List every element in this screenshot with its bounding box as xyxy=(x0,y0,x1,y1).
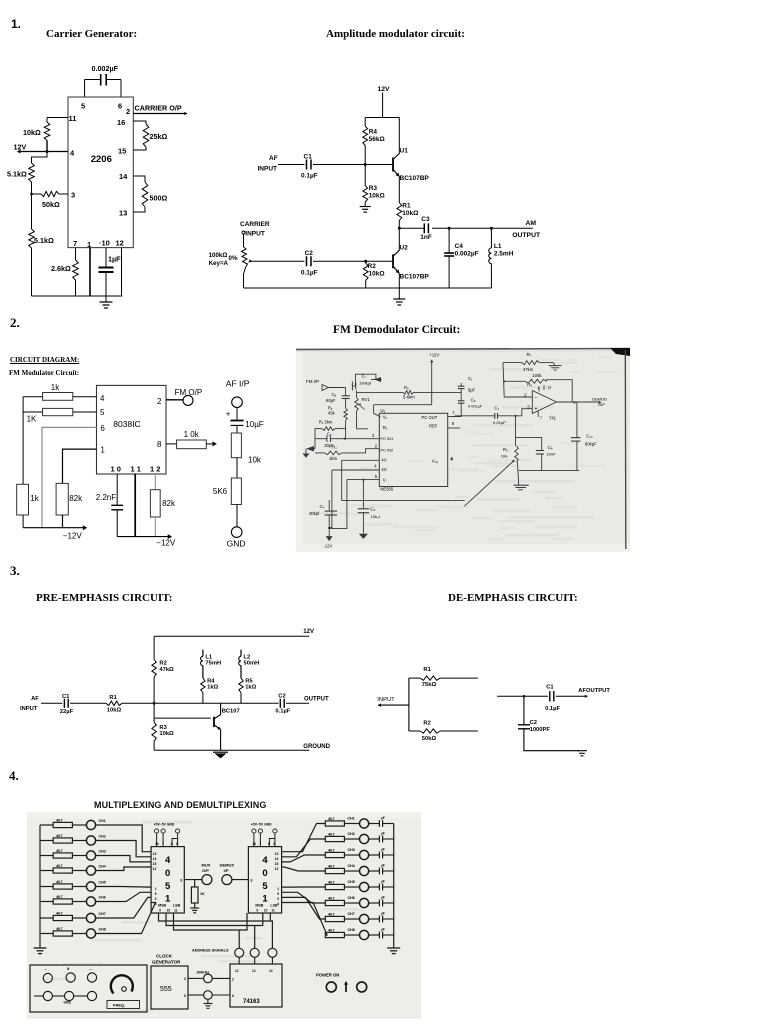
svg-text:L1: L1 xyxy=(494,243,502,250)
wire C1 to R1 xyxy=(70,702,106,704)
svg-text:22µF: 22µF xyxy=(60,709,74,715)
svg-text:C2: C2 xyxy=(530,720,537,726)
svg-text:0.1µF: 0.1µF xyxy=(301,173,318,180)
svg-text:50kΩ: 50kΩ xyxy=(422,736,437,742)
svg-text:CH7: CH7 xyxy=(348,912,355,916)
svg-text:O/P: O/P xyxy=(202,868,209,873)
svg-text:80pF: 80pF xyxy=(326,398,336,403)
svg-text:4K7: 4K7 xyxy=(56,864,63,868)
svg-text:BC107BP: BC107BP xyxy=(400,175,430,182)
svg-text:4K7: 4K7 xyxy=(56,818,63,822)
wire input vertical xyxy=(408,678,410,731)
svg-text:PC IN2: PC IN2 xyxy=(380,448,394,453)
svg-text:4K7: 4K7 xyxy=(328,880,335,884)
section number 3 xyxy=(10,563,20,579)
svg-text:INPUT: INPUT xyxy=(258,166,278,173)
scan dark corner mark xyxy=(610,348,630,356)
svg-text:7: 7 xyxy=(162,842,164,846)
svg-text:−12V: −12V xyxy=(63,532,83,541)
channel CH1 input row xyxy=(40,824,53,826)
wire emitter U2 down xyxy=(398,273,400,299)
svg-text:3: 3 xyxy=(184,977,186,981)
svg-text:12: 12 xyxy=(275,867,279,871)
svg-text:4K7: 4K7 xyxy=(328,912,335,916)
power switch arrow xyxy=(345,983,347,992)
svg-text:0.1µF: 0.1µF xyxy=(301,270,318,277)
svg-text:CH8: CH8 xyxy=(99,928,106,932)
ground C4 / -12V xyxy=(326,536,333,541)
wire DEMUX to right chip xyxy=(232,879,249,881)
svg-text:NE565: NE565 xyxy=(380,487,393,492)
svg-text:4K7: 4K7 xyxy=(56,927,63,931)
address terminal 1 xyxy=(235,948,244,957)
svg-text:1µF: 1µF xyxy=(108,255,121,264)
ground left xyxy=(310,448,315,450)
node junction 12V/10k xyxy=(46,150,49,153)
terminal DEMUX I/P xyxy=(222,875,232,885)
svg-text:CARRIER: CARRIER xyxy=(240,221,270,228)
wire left rail top xyxy=(153,636,155,659)
svg-text:4K7: 4K7 xyxy=(328,832,335,836)
svg-text:6: 6 xyxy=(171,842,173,846)
channel CH7 input row xyxy=(40,917,53,919)
svg-text:1nF: 1nF xyxy=(420,234,432,241)
svg-text:15: 15 xyxy=(275,862,279,866)
svg-text:µF: µF xyxy=(381,848,385,852)
svg-text:CH6: CH6 xyxy=(99,896,106,900)
ground xyxy=(100,301,113,303)
wire R2 branch xyxy=(409,730,420,732)
SVG: pre-emphasis schematic xyxy=(0,620,340,765)
svg-text:OUTPUT: OUTPUT xyxy=(304,696,329,702)
svg-text:1k: 1k xyxy=(30,494,39,503)
terminal FM O/P xyxy=(183,395,193,405)
wire AF input xyxy=(278,164,305,166)
svg-text:12: 12 xyxy=(153,867,157,871)
knob circles top xyxy=(43,973,52,982)
wire C2 branch xyxy=(523,696,525,725)
svg-text:AM: AM xyxy=(526,220,537,227)
svg-text:4K7: 4K7 xyxy=(56,895,63,899)
svg-text:10µF: 10µF xyxy=(245,420,264,429)
svg-text:C2: C2 xyxy=(305,250,314,257)
svg-text:R₊: R₊ xyxy=(332,445,337,450)
wire Vco up right xyxy=(451,457,453,460)
channel CH7 output row xyxy=(282,897,326,919)
svg-text:CH6: CH6 xyxy=(348,896,355,900)
wire base tap xyxy=(153,703,155,718)
IC 4051 box xyxy=(151,847,184,913)
scan right border xyxy=(624,350,627,549)
heading: Carrier Generator xyxy=(46,28,137,40)
svg-text:10kₚf: 10kₚf xyxy=(371,514,381,519)
svg-text:13: 13 xyxy=(275,852,279,856)
svg-text:9: 9 xyxy=(159,909,161,913)
svg-text:10nF: 10nF xyxy=(546,451,556,456)
svg-text:555: 555 xyxy=(160,986,172,993)
wire R1 branch xyxy=(409,677,420,679)
channel CH5 input row xyxy=(40,886,53,888)
svg-text:10kΩ: 10kΩ xyxy=(369,271,385,278)
wire CV row xyxy=(342,459,380,461)
node main xyxy=(153,702,156,705)
svg-text:FREQ.: FREQ. xyxy=(113,1003,125,1008)
svg-text:7: 7 xyxy=(540,416,542,420)
svg-text:16: 16 xyxy=(252,842,256,846)
svg-text:5-6km: 5-6km xyxy=(403,395,415,400)
capacitor C4 0.002uF branch xyxy=(448,227,451,230)
wire input stub xyxy=(378,704,409,706)
terminal lower xyxy=(204,991,213,1000)
output wire xyxy=(557,401,601,403)
wire pin10 xyxy=(105,248,107,267)
svg-text:⋯: ⋯ xyxy=(44,968,47,972)
channel CH8 input row xyxy=(40,933,53,935)
ground right rail xyxy=(387,947,400,949)
noise xyxy=(121,921,151,924)
svg-text:MUX: MUX xyxy=(202,863,211,868)
wire pin6 gray xyxy=(42,427,97,527)
svg-text:5: 5 xyxy=(165,881,171,892)
node C2 junction xyxy=(523,695,526,698)
wire C1 to AFOUTPUT xyxy=(556,695,588,697)
SVG: amplitude modulator schematic xyxy=(200,80,545,315)
svg-text:⋯: ⋯ xyxy=(89,967,92,971)
svg-text:O/P: O/P xyxy=(598,402,605,407)
svg-text:10: 10 xyxy=(264,909,268,913)
wire 5K6 to GND xyxy=(236,505,238,527)
svg-text:4K7: 4K7 xyxy=(56,880,63,884)
wire pin1 to bottom xyxy=(89,248,91,296)
svg-text:1 1: 1 1 xyxy=(131,465,141,474)
svg-text:GND: GND xyxy=(64,1001,72,1005)
svg-text:15: 15 xyxy=(118,147,126,156)
svg-text:C3: C3 xyxy=(421,216,430,223)
channel CH6 input row xyxy=(40,901,53,903)
wire bottom rail xyxy=(244,287,492,289)
svg-text:PC OUT: PC OUT xyxy=(422,415,438,420)
svg-text:741: 741 xyxy=(549,416,557,421)
svg-text:1: 1 xyxy=(155,887,157,891)
node output junction xyxy=(398,227,401,230)
wire top rail xyxy=(154,635,309,637)
svg-text:10kₗ: 10kₗ xyxy=(501,454,508,459)
svg-text:0.002µF: 0.002µF xyxy=(92,64,119,73)
svg-text:2: 2 xyxy=(277,897,279,901)
top loop with C6 100kpf xyxy=(355,374,376,386)
svg-text:0: 0 xyxy=(262,868,267,879)
svg-text:10kΩ: 10kΩ xyxy=(402,210,418,217)
svg-text:25kΩ: 25kΩ xyxy=(150,132,168,141)
svg-text:LSB: LSB xyxy=(173,904,181,908)
svg-text:+5V−5V GND: +5V−5V GND xyxy=(154,823,175,827)
channel CH2 output row xyxy=(282,839,326,857)
svg-text:4K7: 4K7 xyxy=(328,864,335,868)
svg-text:5: 5 xyxy=(100,408,105,417)
svg-text:12: 12 xyxy=(252,969,256,973)
wire feedback left rail xyxy=(503,363,532,397)
wire pin12 to bottom xyxy=(121,248,123,296)
ground at bottom xyxy=(393,298,405,300)
svg-text:¢X: ¢X xyxy=(382,467,387,472)
svg-text:Key=A: Key=A xyxy=(209,260,229,267)
svg-text:10kΩ: 10kΩ xyxy=(369,193,385,200)
svg-text:4: 4 xyxy=(165,855,171,866)
svg-text:11: 11 xyxy=(174,909,178,913)
svg-text:0.1µF: 0.1µF xyxy=(275,709,290,715)
svg-text:C₃: C₃ xyxy=(370,507,375,512)
svg-text:14: 14 xyxy=(275,857,279,861)
svg-text:CH4: CH4 xyxy=(99,865,106,869)
svg-text:MSB: MSB xyxy=(255,904,263,908)
wire collector U2 to node xyxy=(398,228,400,250)
wire input xyxy=(329,387,346,389)
IC 8038 box xyxy=(97,385,167,474)
ground 1K xyxy=(190,907,199,909)
heading: MULTIPLEXING AND DEMULTIPLEXING xyxy=(94,800,266,810)
svg-text:¢V: ¢V xyxy=(382,457,387,462)
svg-text:10: 10 xyxy=(167,909,171,913)
svg-text:µF: µF xyxy=(381,832,385,836)
svg-text:OUTPUT: OUTPUT xyxy=(512,232,541,239)
svg-text:INPUT: INPUT xyxy=(20,706,38,712)
SVG: FM demodulator scanned sketch xyxy=(296,348,630,552)
svg-text:CLOCK: CLOCK xyxy=(156,954,173,959)
svg-text:C4: C4 xyxy=(455,243,464,250)
svg-text:CH1: CH1 xyxy=(99,819,106,823)
terminal GND xyxy=(231,527,242,538)
svg-text:5pF: 5pF xyxy=(468,388,476,393)
svg-text:500Ω: 500Ω xyxy=(150,194,168,203)
svg-text:µF: µF xyxy=(381,880,385,884)
svg-text:C₎: C₎ xyxy=(362,374,366,379)
ground R7 xyxy=(549,365,562,367)
ground xyxy=(577,750,587,752)
terminal clock xyxy=(204,974,213,983)
wire 1K to pin5 xyxy=(73,411,97,413)
svg-text:+: + xyxy=(537,387,539,391)
svg-text:82k: 82k xyxy=(69,494,83,503)
channel CH5 output row xyxy=(282,886,326,888)
svg-text:3: 3 xyxy=(180,879,182,883)
wire 10k to 5K6 xyxy=(236,458,238,478)
wire 555 lower xyxy=(188,994,204,996)
bottom wire right xyxy=(519,470,580,472)
opamp supply ticks xyxy=(538,387,540,392)
svg-text:+: + xyxy=(226,410,231,419)
wire 555 pin3 xyxy=(188,977,204,979)
scanned page background xyxy=(296,348,630,552)
svg-text:4K7: 4K7 xyxy=(56,911,63,915)
svg-text:2.2nF: 2.2nF xyxy=(96,493,117,502)
resistor 5K6 xyxy=(231,478,241,505)
heading: DE-EMPHASIS CIRCUIT xyxy=(448,592,578,604)
svg-text:BC107BP: BC107BP xyxy=(400,274,430,281)
svg-text:2206: 2206 xyxy=(91,154,112,165)
svg-text:5: 5 xyxy=(184,994,186,998)
svg-text:·10: ·10 xyxy=(99,239,110,248)
svg-text:U2: U2 xyxy=(400,245,409,252)
inductor L1 2.5mH branch xyxy=(490,227,493,230)
wire C1 line xyxy=(497,695,548,697)
svg-text:1000PF: 1000PF xyxy=(530,727,551,733)
svg-text:9: 9 xyxy=(256,909,258,913)
svg-text:14: 14 xyxy=(119,172,128,181)
svg-text:2: 2 xyxy=(155,897,157,901)
svg-text:47km: 47km xyxy=(523,367,534,372)
wire pin2 to FM O/P xyxy=(166,399,183,401)
SVG: de-emphasis schematic xyxy=(370,660,610,765)
svg-text:8038IC: 8038IC xyxy=(113,419,140,429)
svg-text:0: 0 xyxy=(165,868,170,879)
resistor 82k (pin12) xyxy=(150,490,160,517)
wire collector line to C2 xyxy=(221,702,279,704)
svg-text:FM I/P: FM I/P xyxy=(306,379,319,384)
svg-text:11: 11 xyxy=(271,909,275,913)
svg-text:C1: C1 xyxy=(304,154,313,161)
knob circles bottom xyxy=(43,991,52,1000)
resistor 10k vertical xyxy=(231,433,241,458)
svg-text:12: 12 xyxy=(235,969,239,973)
svg-text:U₅: U₅ xyxy=(380,408,385,413)
svg-text:0.002µF: 0.002µF xyxy=(455,251,479,258)
svg-text:1 2: 1 2 xyxy=(150,465,160,474)
svg-text:3: 3 xyxy=(250,879,252,883)
wire 10k to arrow xyxy=(206,443,213,445)
wire ground rail xyxy=(154,749,309,751)
wire Vminus vertical xyxy=(329,480,347,529)
svg-text:8: 8 xyxy=(273,842,275,846)
svg-text:+12V: +12V xyxy=(429,353,439,358)
svg-text:R2: R2 xyxy=(159,661,166,667)
svg-text:13: 13 xyxy=(153,852,157,856)
svg-text:GENERATOR: GENERATOR xyxy=(152,960,181,965)
IC 74163 box xyxy=(230,964,282,1007)
svg-text:µF: µF xyxy=(381,864,385,868)
svg-text:74163: 74163 xyxy=(243,999,260,1005)
svg-text:5.1kΩ: 5.1kΩ xyxy=(34,236,54,245)
svg-text:56kΩ: 56kΩ xyxy=(369,136,385,143)
address terminal 2 xyxy=(250,948,259,957)
svg-text:1 0: 1 0 xyxy=(111,465,121,474)
svg-text:47kΩ: 47kΩ xyxy=(159,667,174,673)
heading: Amplitude modulator circuit xyxy=(326,28,465,40)
svg-text:12V: 12V xyxy=(303,629,314,635)
IC 555 box xyxy=(151,966,188,1009)
wire AF input xyxy=(41,702,62,704)
svg-text:45k: 45k xyxy=(328,411,336,416)
svg-text:-12V: -12V xyxy=(324,544,333,549)
front panel box xyxy=(30,965,147,1012)
svg-text:15: 15 xyxy=(153,862,157,866)
svg-text:INPUT: INPUT xyxy=(377,697,395,703)
svg-text:6: 6 xyxy=(268,842,270,846)
svg-text:ADDRESS SIGNALS: ADDRESS SIGNALS xyxy=(192,949,229,953)
svg-text:PC IN1: PC IN1 xyxy=(380,436,394,441)
resistor 1K load xyxy=(194,880,196,887)
wires terminals to 74163 xyxy=(238,957,240,964)
svg-text:LSB: LSB xyxy=(270,904,278,908)
svg-text:2.6kΩ: 2.6kΩ xyxy=(51,264,71,273)
svg-text:AF: AF xyxy=(31,696,39,702)
wire -12V rail left xyxy=(23,527,84,529)
right output rail xyxy=(393,824,395,949)
wire CV vertical to bus xyxy=(341,460,343,500)
wire R1 to node xyxy=(122,702,154,704)
wire carrier output xyxy=(133,113,187,115)
svg-text:REF: REF xyxy=(429,424,438,429)
terminal AF I/P xyxy=(232,397,243,408)
wire pin11 xyxy=(47,117,68,119)
svg-text:1: 1 xyxy=(100,446,105,455)
svg-text:U1: U1 xyxy=(400,148,409,155)
svg-text:0%: 0% xyxy=(229,255,238,262)
svg-text:1kΩ: 1kΩ xyxy=(207,685,218,691)
wire R3 branch xyxy=(364,165,366,186)
svg-text:µF: µF xyxy=(381,912,385,916)
wire cap to pin6 xyxy=(120,80,122,98)
wire pin1 xyxy=(63,449,97,483)
svg-text:CARRIER O/P: CARRIER O/P xyxy=(135,104,182,113)
wire AF to cap xyxy=(236,408,238,421)
svg-text:R1: R1 xyxy=(109,695,117,701)
pointer diagonal to R5 xyxy=(464,461,514,507)
wire CX vertical xyxy=(329,470,332,528)
wire 82k to bottom xyxy=(62,515,64,528)
svg-text:12: 12 xyxy=(116,239,124,248)
svg-text:5: 5 xyxy=(277,892,279,896)
svg-text:6: 6 xyxy=(232,994,234,998)
svg-text:1: 1 xyxy=(277,887,279,891)
wire cap to 10k xyxy=(236,425,238,433)
resistor 1k vertical xyxy=(17,484,29,515)
svg-text:C₅: C₅ xyxy=(327,432,332,437)
wire C7 to plus node xyxy=(498,415,516,417)
svg-text:R₇: R₇ xyxy=(527,352,532,357)
svg-text:−|S: −|S xyxy=(546,386,552,390)
channel CH6 output row xyxy=(282,892,326,903)
svg-text:DEMOD: DEMOD xyxy=(592,397,607,402)
svg-text:Rₓ: Rₓ xyxy=(383,425,388,430)
svg-text:Cₐ: Cₐ xyxy=(332,392,337,397)
heading: PRE-EMPHASIS CIRCUIT xyxy=(36,592,172,604)
svg-text:C₁: C₁ xyxy=(468,376,473,381)
svg-text:+: + xyxy=(535,407,538,413)
svg-text:V₀: V₀ xyxy=(383,415,388,420)
small ground arrow top xyxy=(371,379,382,381)
svg-text:2.5mH: 2.5mH xyxy=(494,251,514,258)
svg-text:2: 2 xyxy=(126,107,130,116)
svg-text:14: 14 xyxy=(269,969,273,973)
noise xyxy=(489,368,528,371)
svg-text:7: 7 xyxy=(259,842,261,846)
svg-text:C1: C1 xyxy=(546,685,554,691)
wire pin7 to C7 xyxy=(452,403,461,416)
svg-text:75kΩ: 75kΩ xyxy=(422,682,437,688)
svg-text:75mH: 75mH xyxy=(205,661,221,667)
svg-text:10k: 10k xyxy=(248,456,262,465)
svg-text:µF: µF xyxy=(381,928,385,932)
svg-text:8: 8 xyxy=(157,440,162,449)
svg-text:1 0k: 1 0k xyxy=(184,430,200,439)
op-amp IC XR2206 box U1 xyxy=(68,97,133,248)
wire 12V rail right xyxy=(374,392,432,404)
svg-text:4: 4 xyxy=(155,902,157,906)
wire pin12 gray xyxy=(154,474,156,490)
svg-text:50kΩ: 50kΩ xyxy=(42,200,60,209)
svg-text:4K7: 4K7 xyxy=(328,817,335,821)
input triangle xyxy=(322,385,329,391)
